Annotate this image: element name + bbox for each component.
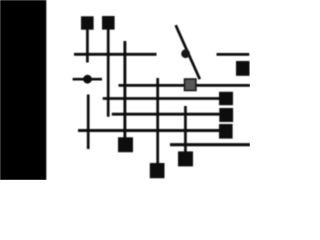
wire H2 through dot (73, 78, 102, 81)
wire vertical to S7 (184, 106, 187, 152)
wire stem from S2 / vertical V2 (107, 30, 110, 117)
clock hand diagonal (176, 25, 200, 79)
node square S1 (81, 16, 94, 29)
wire bus C (112, 113, 220, 116)
wire bus E thick (170, 143, 250, 146)
wire stem from S1 (86, 30, 89, 63)
wire bus A (119, 84, 251, 87)
node square S7 (178, 151, 193, 166)
node square S5 (118, 137, 133, 152)
node square S6 (150, 163, 165, 178)
pivot dot D2 (181, 49, 190, 58)
gray component square (185, 79, 196, 90)
wire vertical V1 (123, 41, 126, 138)
wire H1 horizontal (74, 53, 157, 56)
wire vertical VL (87, 95, 90, 150)
junction dot D1 (83, 75, 92, 84)
wire H3 right top (217, 53, 250, 56)
node square R2 (219, 108, 233, 122)
wire bus D (78, 129, 220, 132)
node square R3 (219, 124, 233, 139)
wire vertical to S6 (156, 78, 159, 164)
node square R1 (219, 92, 233, 105)
wire bus B (103, 97, 220, 100)
node square TR (236, 61, 250, 76)
node square S2 (102, 16, 115, 30)
left black panel (0, 0, 46, 180)
